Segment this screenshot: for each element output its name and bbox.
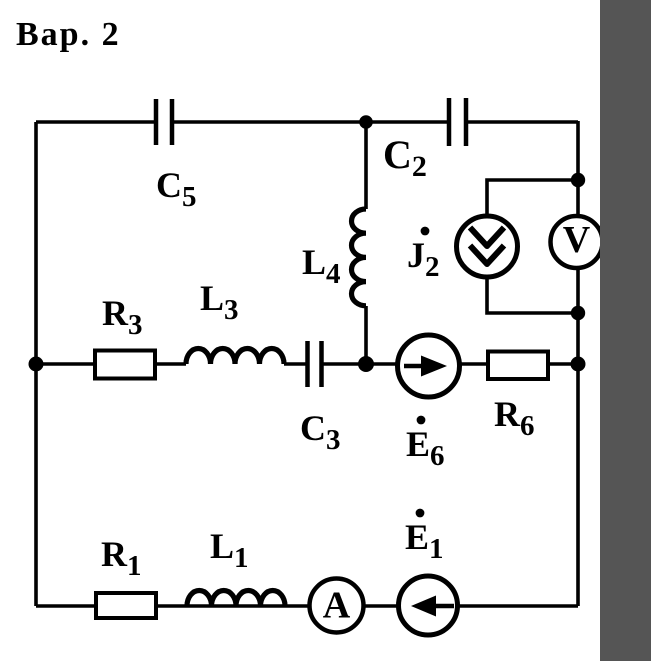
svg-text:V: V [563, 219, 591, 261]
svg-text:A: A [323, 585, 351, 627]
svg-text:Вар. 2: Вар. 2 [16, 16, 121, 53]
